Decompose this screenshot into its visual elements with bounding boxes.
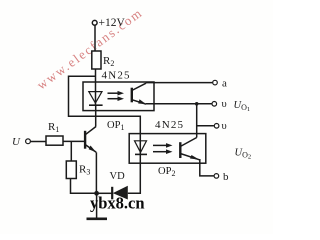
wire R1 to base — [63, 140, 85, 142]
resistor R1 — [46, 136, 63, 145]
OP2 LED D2 — [135, 141, 147, 153]
wire node after R2 wrapping to OP2 LED anode — [69, 76, 141, 154]
terminal o2 — [214, 124, 219, 129]
wire base tap to R3 — [70, 141, 72, 161]
OP1 LED D1 — [89, 92, 102, 104]
resistor R2 — [92, 51, 101, 69]
OP2 emitter wire to terminal b — [200, 160, 214, 176]
svg-text:b: b — [223, 171, 229, 183]
OP2 coupling arrows — [153, 144, 167, 146]
wire branch to terminal o2 — [197, 125, 214, 127]
wire junction down to OP2 collector — [196, 104, 198, 138]
optocoupler U2 box OP2 — [129, 134, 206, 164]
svg-text:R3: R3 — [79, 164, 90, 177]
wire +12V to R2 — [94, 26, 96, 51]
terminal a — [213, 80, 218, 85]
OP1 LED cathode wire to transistor collector — [95, 105, 97, 126]
junction node on OP1 emitter wire — [195, 102, 199, 106]
svg-text:R1: R1 — [48, 121, 59, 134]
transistor V — [84, 131, 86, 149]
junction node at emitter/ground — [94, 191, 99, 196]
wire R3 bottom to node — [71, 179, 97, 194]
svg-text:υ: υ — [222, 99, 227, 110]
OP2 LED cathode lead inside box — [139, 154, 141, 163]
svg-text:OP1: OP1 — [107, 120, 124, 132]
wire OP1 collector to terminal a — [146, 82, 212, 84]
optocoupler U1 box OP1 — [83, 82, 154, 111]
ground — [87, 218, 108, 221]
resistor R3 — [66, 161, 76, 179]
svg-text:R2: R2 — [103, 55, 114, 68]
wire node to ground — [96, 193, 98, 218]
diode VD — [111, 187, 113, 200]
wire VD to OP2 LED cathode — [128, 163, 141, 193]
wire emitter down to bottom node — [95, 152, 97, 193]
wire R2 to OP1 LED anode — [95, 69, 97, 105]
svg-text:OP2: OP2 — [158, 166, 175, 178]
svg-text:ybx8.cn: ybx8.cn — [90, 194, 145, 213]
wire OP1 emitter to terminal o1 — [146, 103, 212, 105]
power terminal +12V — [92, 20, 97, 25]
svg-text:UO1: UO1 — [234, 100, 251, 113]
watermark www.elecfans.com — [34, 5, 146, 93]
svg-text:4N25: 4N25 — [155, 119, 184, 131]
wire collector up (crosses wrap wire) — [95, 126, 97, 128]
OP1 phototransistor Q — [131, 88, 133, 103]
svg-text:υ: υ — [222, 121, 227, 132]
svg-text:VD: VD — [110, 171, 126, 182]
OP2 phototransistor Q — [179, 142, 181, 158]
terminal b — [214, 174, 219, 179]
wire node to VD — [97, 192, 112, 194]
svg-text:U: U — [12, 136, 21, 148]
terminal o1 — [212, 102, 217, 107]
svg-text:a: a — [222, 78, 227, 90]
OP1 coupling arrows — [108, 92, 119, 94]
svg-text:+12V: +12V — [99, 17, 126, 29]
wire U to R1 — [31, 141, 46, 143]
svg-text:UO2: UO2 — [235, 148, 252, 161]
svg-text:4N25: 4N25 — [102, 70, 131, 82]
